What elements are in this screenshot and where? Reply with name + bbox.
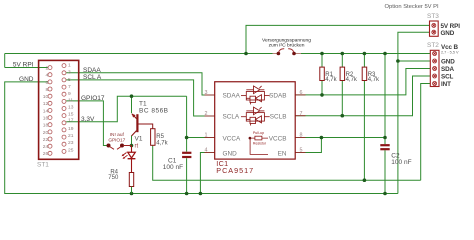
svg-text:10: 10 [43,94,49,100]
wire SCLA from ST1 pin5 to IC1 pin2 [66,80,215,116]
svg-text:12: 12 [43,101,49,107]
pin numbers ST1 left column [43,66,49,158]
svg-text:GND: GND [441,59,455,66]
svg-text:6: 6 [300,90,303,96]
svg-text:SDA: SDA [441,66,455,73]
jumper SJ2 IN auf GPIO17 pads [107,144,125,148]
junction dot R4 GND [130,192,134,196]
svg-text:17: 17 [68,118,74,124]
wire R1 bottom lead [321,80,323,95]
svg-text:20: 20 [43,130,49,136]
wire IC1 GND pin4 down to rail [200,153,214,194]
svg-text:GPIO17: GPIO17 [81,95,105,102]
wire 5V branch down to VCCB and C2 [384,54,386,145]
svg-text:EN: EN [278,150,287,157]
svg-text:13: 13 [68,104,74,110]
svg-text:GND: GND [223,150,238,157]
wire SCLB from IC1 pin7 [295,76,430,116]
wire INT riser to ST2 [421,84,430,181]
capacitor C1 [182,153,191,157]
svg-text:5: 5 [300,148,303,154]
svg-text:4,7k: 4,7k [156,140,168,146]
transistor T1 base lead to R5 [139,124,153,129]
wire C1 to GND rail [186,158,188,193]
jumper SJ2 wire to node [123,145,132,147]
svg-text:7: 7 [300,111,303,117]
junction dot R2-SCLB [341,114,345,118]
svg-text:3,3V: 3,3V [81,116,95,123]
svg-text:2: 2 [205,111,208,117]
IC1 buffer symbol SDA channel [241,86,270,105]
wire GND to ST2 [398,60,430,62]
wire R5 bottom to INT line [153,145,421,180]
wire GND from ST1 pin6 [5,82,398,194]
svg-text:VCCA: VCCA [223,135,241,142]
transistor T1 base bar [136,114,138,132]
IC1 internal pull-up resistor symbol [249,136,268,154]
junction dot 5V-ST3 branch [244,52,248,56]
wire GPIO17 from ST1 pin11 to jumper SJ2 [66,101,107,146]
capacitor C2 [380,145,389,149]
wire VCCA to C1 [186,138,188,152]
svg-text:8: 8 [300,133,303,139]
wire EN from IC1 pin5 up to VCCB [295,138,321,153]
svg-text:23: 23 [68,140,74,146]
connector ST2 pin SDA [433,67,437,71]
svg-text:1: 1 [205,133,208,139]
IC1 internal pull-up junction dot [249,137,252,140]
svg-text:14: 14 [43,108,49,114]
junction dot ST2 GND [396,59,400,63]
wire SDAA from ST1 pin3 to IC1 pin3 [66,73,215,95]
svg-text:7: 7 [68,84,71,90]
svg-text:GND: GND [441,30,455,37]
junction dot 3.3V T1 branch [130,94,134,98]
resistor R5 [151,129,155,146]
resistor R3 [362,67,367,80]
svg-text:SCL A: SCL A [83,74,102,81]
transistor T1 collector [132,131,137,136]
svg-text:PCA9517: PCA9517 [216,166,254,175]
wire R2 top lead [341,54,343,68]
svg-text:ST2: ST2 [427,42,439,49]
svg-text:100 nF: 100 nF [163,164,183,171]
svg-text:GND: GND [19,76,34,83]
svg-text:5V RPI: 5V RPI [13,62,34,69]
svg-text:SCL: SCL [441,74,454,81]
svg-text:4,7k: 4,7k [368,77,380,83]
wire VCCB from IC1 pin8 [295,137,385,139]
wire 5V branch up to ST3 [246,25,430,53]
resistor R1 [320,67,325,80]
svg-text:19: 19 [68,126,74,132]
svg-text:1: 1 [68,63,71,69]
svg-text:BC 856B: BC 856B [139,108,169,115]
svg-text:9: 9 [68,91,71,97]
wire 3.3V down to VCCA [187,96,215,137]
wire SDAB from IC1 pin6 [295,69,430,95]
svg-text:18: 18 [43,123,49,129]
svg-text:2: 2 [45,66,48,72]
connector ST3 pin 2 [432,30,436,34]
svg-text:T1: T1 [139,101,147,108]
connector ST3 pin 1 [432,23,436,27]
connector ST1 pins right column [62,64,66,154]
wire T1 collector to jumper node [131,136,133,146]
junction dot R3 top [363,52,367,56]
LED V1 arrows [122,153,128,160]
svg-text:SDAA: SDAA [83,67,101,74]
svg-text:VCCB: VCCB [269,135,287,142]
svg-text:SDAB: SDAB [269,93,286,100]
LED V1 triangle [128,152,136,158]
wire 3.3V to T1 emitter [131,96,133,113]
wire 3.3V from ST1 pin17 [66,96,186,122]
wire 5V rail horizontal left segment to jumper [5,53,279,55]
svg-text:16: 16 [43,116,49,122]
svg-text:6: 6 [45,80,48,86]
junction dot R1-SDAB [320,93,324,97]
connector ST1 pins left column [48,66,52,156]
junction dot C2 GND [383,192,387,196]
wire C2 to GND rail [384,150,386,193]
svg-text:4,7k: 4,7k [325,77,337,83]
svg-text:V1: V1 [135,136,143,143]
svg-text:rt: rt [135,144,139,150]
connector ST1 box [39,60,79,159]
svg-text:11: 11 [68,97,73,103]
resistor R4 [129,173,133,187]
wire R3 top lead [363,54,365,68]
svg-text:SCLA: SCLA [223,114,240,121]
svg-text:3: 3 [68,70,71,76]
LED V1 lead bottom [131,159,133,173]
svg-text:21: 21 [68,133,74,139]
junction dot EN-VCCB [320,136,324,140]
connector ST2 pin SCL [433,74,437,78]
junction dot R3-INT line [363,178,367,182]
junction dot R1 top [320,52,324,56]
svg-text:26: 26 [43,151,49,157]
connector ST2 pin VccB [433,52,437,56]
pin numbers ST1 right column [68,63,74,154]
wire R2 bottom lead [341,80,343,115]
IC1 buffer symbol SCL channel [241,107,270,126]
jumper SJ1 Versorgungsspannung pads [277,52,296,56]
junction dot VCCA [185,136,189,140]
LED V1 lead top [131,146,133,153]
svg-text:2,7 - 5,5 V: 2,7 - 5,5 V [441,50,459,54]
svg-text:8: 8 [45,87,48,93]
svg-text:R5: R5 [156,134,164,140]
svg-text:4: 4 [45,73,48,79]
junction dot IC GND rail [199,192,203,196]
svg-text:Pull-up: Pull-up [253,131,264,135]
wire R3 bottom lead to INT line [363,80,365,180]
svg-text:Resistor: Resistor [253,141,267,145]
connector ST2 pin INT [433,82,437,86]
svg-text:SCLB: SCLB [270,114,287,121]
svg-text:zum I²C brücken: zum I²C brücken [269,43,305,49]
svg-text:IN! auf: IN! auf [110,132,125,138]
svg-text:ST1: ST1 [37,162,49,169]
resistor R4 bottom lead [131,187,133,194]
wire 5V rail top-left corner vertical [4,54,6,68]
svg-text:750: 750 [108,175,119,181]
svg-text:5V RPI: 5V RPI [441,23,461,30]
svg-text:15: 15 [68,112,74,118]
junction dot 5V VCCB branch [383,52,387,56]
resistor R2 [340,67,345,80]
wire 5V rail horizontal right segment from jumper to ST2 VccB [294,53,430,55]
svg-text:4,7k: 4,7k [346,77,358,83]
svg-text:3: 3 [205,90,208,96]
junction dot VCCB C2 branch [383,136,387,140]
wire 5V to ST1 pin2 [5,67,48,69]
IC1 pin stubs [205,95,306,153]
svg-text:INT: INT [441,81,451,88]
connector ST3 box [430,21,439,36]
junction dot R2 top [341,52,345,56]
svg-text:SDAA: SDAA [223,93,241,100]
svg-text:100 nF: 100 nF [391,159,411,166]
svg-text:25: 25 [68,147,74,153]
wire GND riser right [398,32,430,193]
LED V1 cathode bar [128,158,136,160]
svg-text:5: 5 [68,77,71,83]
svg-text:22: 22 [43,137,49,143]
connector ST2 pin GND [433,59,437,63]
svg-text:GPIO17: GPIO17 [108,138,125,144]
junction dot C1 GND [185,192,189,196]
junction dot collector-jumper node [130,144,134,148]
svg-text:ST3: ST3 [427,13,439,20]
svg-text:Option Stecker 5V PI: Option Stecker 5V PI [385,4,440,10]
wire R1 top lead [321,54,323,68]
connector ST2 box [430,50,439,86]
svg-text:24: 24 [43,144,49,150]
svg-text:4: 4 [205,148,208,154]
IC op-amp buffer IC1 box [215,82,296,159]
transistor T1 emitter with arrow [132,114,137,119]
jumper SJ2 arms [110,147,122,150]
jumper SJ1 arcs [273,49,302,54]
